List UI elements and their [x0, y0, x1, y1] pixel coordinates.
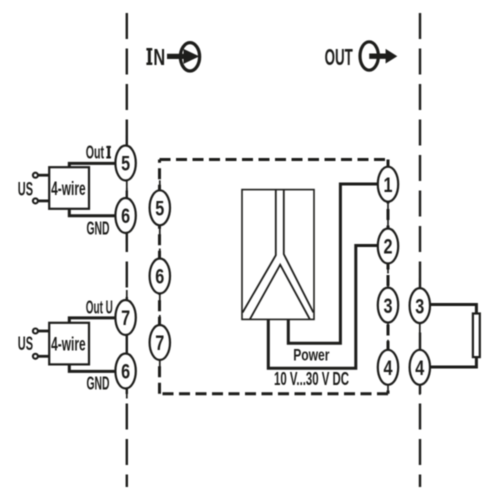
- svg-text:6: 6: [121, 360, 130, 384]
- svg-text:3: 3: [384, 294, 393, 318]
- svg-text:7: 7: [155, 331, 164, 355]
- svg-text:OUT: OUT: [325, 44, 354, 70]
- svg-text:Out U: Out U: [86, 296, 113, 317]
- svg-text:4-wire: 4-wire: [51, 335, 86, 356]
- svg-text:6: 6: [121, 204, 130, 228]
- svg-text:4: 4: [415, 356, 424, 380]
- svg-text:US: US: [18, 178, 33, 200]
- svg-text:US: US: [18, 333, 33, 355]
- svg-text:3: 3: [415, 294, 424, 318]
- svg-text:5: 5: [121, 152, 130, 176]
- svg-text:2: 2: [384, 235, 393, 259]
- svg-text:1: 1: [384, 173, 393, 197]
- svg-text:4-wire: 4-wire: [51, 179, 86, 200]
- svg-text:Out: Out: [86, 143, 104, 163]
- svg-text:N: N: [153, 44, 165, 70]
- svg-text:Power: Power: [293, 347, 330, 365]
- svg-text:6: 6: [155, 265, 164, 289]
- svg-text:GND: GND: [87, 217, 110, 238]
- svg-text:GND: GND: [87, 372, 110, 393]
- svg-text:7: 7: [121, 306, 130, 330]
- svg-text:4: 4: [384, 356, 393, 380]
- svg-text:5: 5: [155, 197, 164, 221]
- svg-text:10 V...30 V DC: 10 V...30 V DC: [274, 368, 349, 389]
